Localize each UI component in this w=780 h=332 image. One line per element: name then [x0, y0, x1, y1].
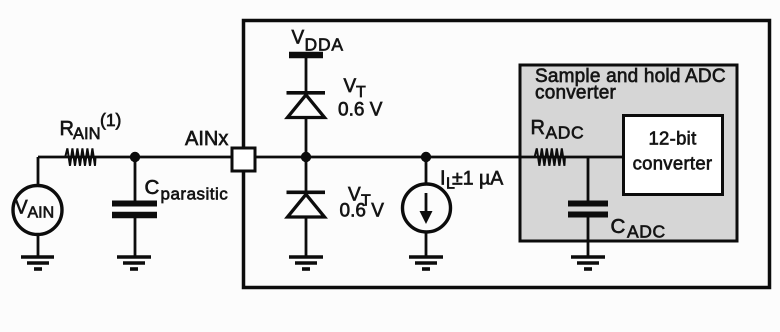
wire main horizontal from AINx pin to 12-bit converter [256, 156, 624, 159]
svg-text:(1): (1) [100, 110, 121, 130]
svg-text:V: V [292, 28, 305, 49]
resistor RADC [535, 148, 565, 165]
svg-text:ADC: ADC [627, 222, 666, 242]
svg-text:parasitic: parasitic [161, 185, 229, 204]
svg-text:converter: converter [633, 153, 713, 174]
diode D1 to VDDA [287, 93, 326, 157]
svg-text:R: R [531, 117, 545, 139]
node junction at Cparasitic [130, 152, 140, 162]
ground for CADC [571, 257, 605, 269]
svg-text:0.6 V: 0.6 V [338, 100, 383, 121]
node junction at current source [421, 152, 431, 162]
svg-text:AINx: AINx [185, 128, 228, 150]
label Cparasitic [145, 176, 229, 204]
label Sample and hold ADC converter [535, 66, 726, 104]
device boundary rectangle [244, 21, 770, 288]
ground for VAIN [21, 257, 54, 269]
svg-text:V: V [15, 198, 28, 219]
svg-text:C: C [611, 215, 626, 238]
svg-text:ADC: ADC [546, 123, 585, 143]
current source IL [403, 157, 451, 256]
wire main horizontal from VAIN to AINx pin [38, 156, 232, 159]
diode D2 to VSSA [287, 157, 326, 256]
svg-text:AIN: AIN [28, 205, 55, 222]
wire junction down to CADC [587, 157, 590, 201]
label VDDA [292, 28, 344, 55]
svg-text:converter: converter [535, 83, 616, 104]
svg-text:C: C [145, 176, 160, 199]
svg-text:I: I [440, 168, 446, 190]
label CADC [611, 215, 666, 242]
pin AINx square pad [232, 148, 255, 171]
capacitor Cparasitic [112, 204, 157, 257]
svg-text:T: T [356, 84, 366, 101]
svg-text:R: R [60, 118, 74, 140]
svg-text:12-bit: 12-bit [648, 128, 696, 149]
ground for diode D2 [289, 257, 323, 269]
label VT 0.6 V top [338, 76, 383, 121]
ground for Cparasitic [117, 257, 151, 269]
label RADC [531, 117, 585, 143]
voltage source VAIN [13, 157, 62, 256]
label AINx [185, 128, 228, 150]
power rail VDDA bar [289, 55, 323, 93]
resistor RAIN [65, 148, 95, 165]
sample and hold ADC converter box U2 [520, 65, 737, 241]
svg-text:±1 µA: ±1 µA [452, 168, 503, 190]
label IL +/-1 uA [440, 168, 503, 193]
capacitor CADC [568, 204, 608, 257]
svg-text:DDA: DDA [305, 35, 344, 55]
svg-text:0.6 V: 0.6 V [340, 201, 385, 222]
ground for current source [409, 257, 443, 269]
label VT 0.6 V bottom [340, 185, 385, 222]
label RAIN(1) [60, 110, 122, 143]
svg-text:AIN: AIN [73, 125, 101, 143]
wire junction down to Cparasitic [134, 157, 137, 201]
node junction at diodes [301, 152, 311, 162]
svg-text:V: V [344, 76, 357, 97]
12-bit converter box U1 [624, 116, 723, 195]
